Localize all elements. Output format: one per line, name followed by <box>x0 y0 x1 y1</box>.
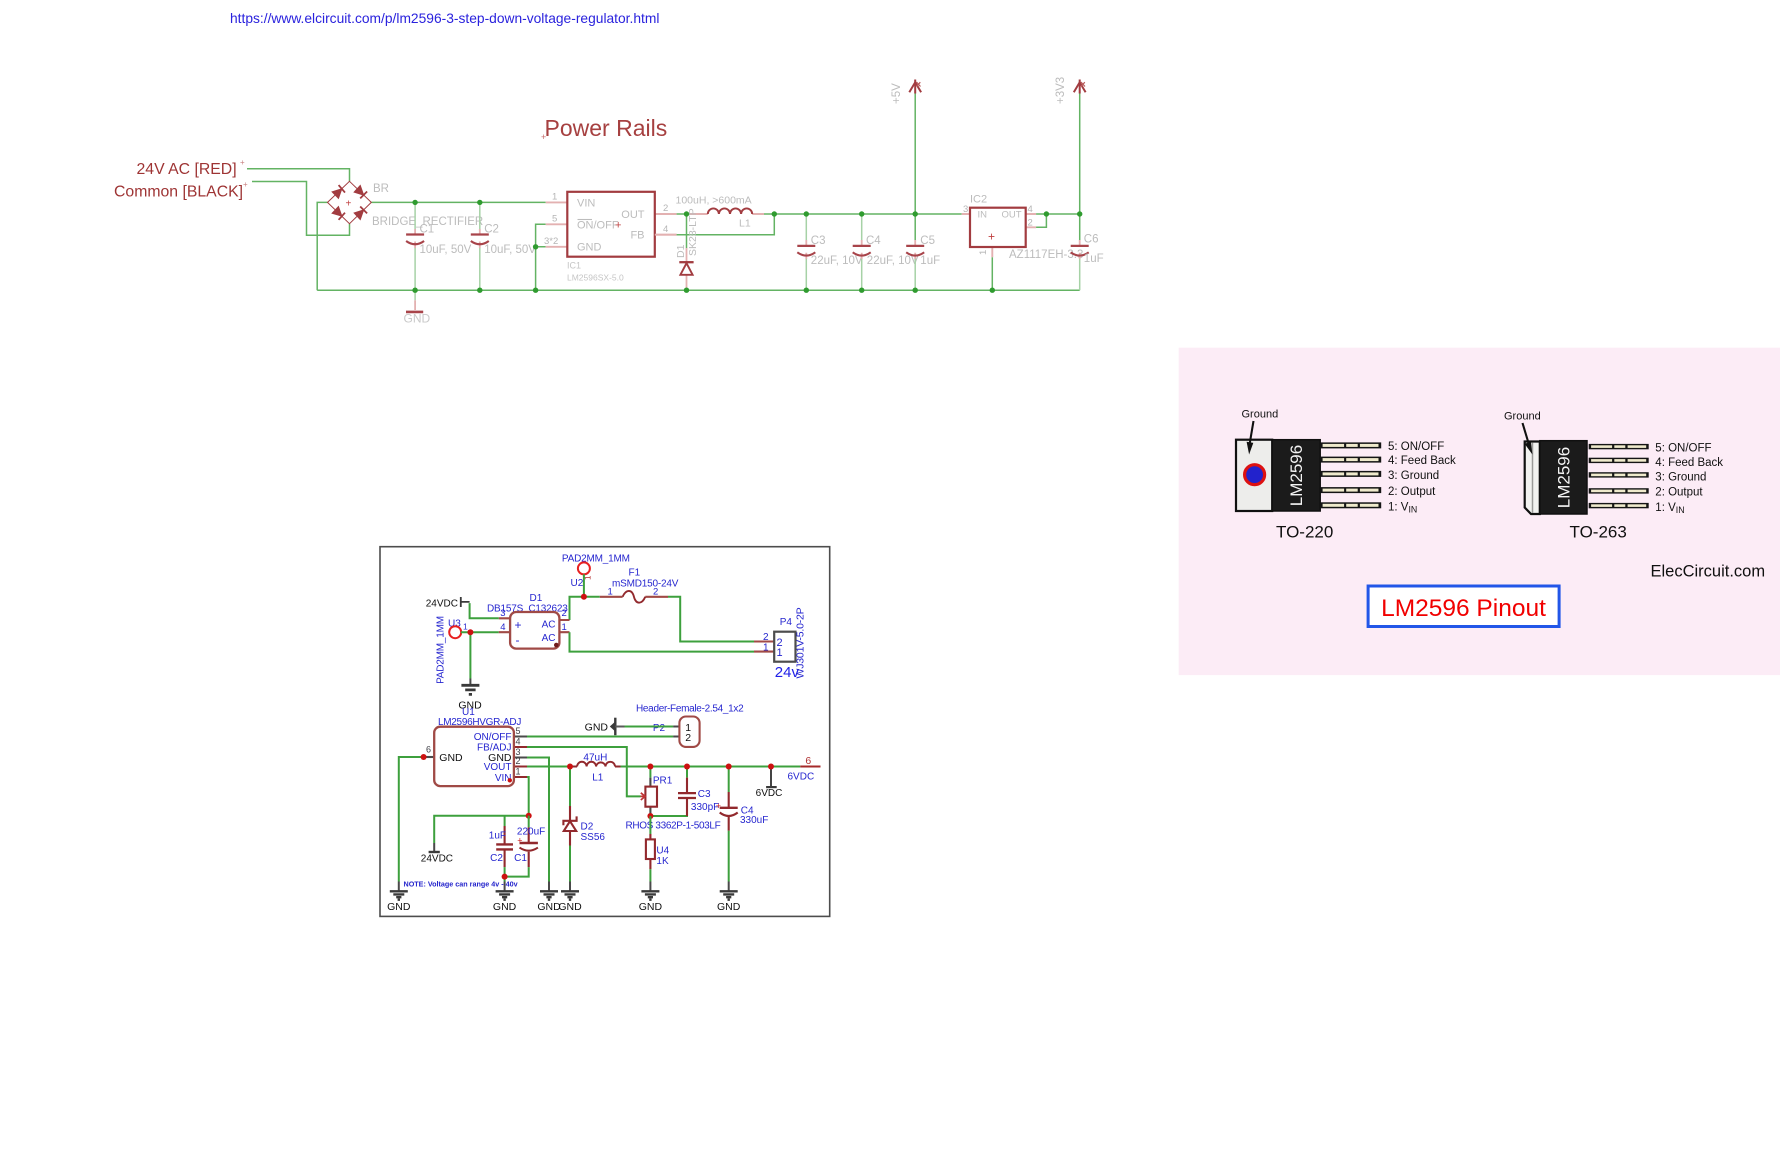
svg-text:SS56: SS56 <box>581 832 606 843</box>
svg-text:C2: C2 <box>490 853 503 864</box>
svg-text:LM2596: LM2596 <box>1287 445 1306 506</box>
connector P4 WJ301V-5.0-2P <box>754 607 807 680</box>
svg-text:D1: D1 <box>675 244 687 258</box>
svg-text:D2: D2 <box>581 821 594 832</box>
svg-text:RHOS 3362P-1-503LF: RHOS 3362P-1-503LF <box>626 820 721 831</box>
svg-text:L1: L1 <box>739 218 751 230</box>
wire PR1 node to U4 <box>649 816 651 834</box>
svg-text:5: ON/OFF: 5: ON/OFF <box>1655 443 1711 455</box>
svg-text:2: 2 <box>653 587 658 598</box>
svg-text:IC2: IC2 <box>970 194 987 206</box>
svg-text:Common [BLACK]: Common [BLACK] <box>114 184 243 201</box>
svg-text:AZ1117EH-3.3: AZ1117EH-3.3 <box>1009 249 1083 261</box>
IC2 AZ1117EH-3.3 <box>962 194 1084 261</box>
wire GND to P2 pin1 <box>625 726 674 728</box>
svg-text:GND: GND <box>558 901 582 913</box>
junction U1 pin6 <box>421 754 427 760</box>
ground symbol GND (at P2) <box>585 718 625 736</box>
capacitor C1 220uF <box>505 816 546 877</box>
svg-text:3: 3 <box>963 204 968 215</box>
title Power Rails <box>541 115 667 142</box>
wire Common to bridge <box>252 182 350 236</box>
svg-text:+: + <box>517 835 522 845</box>
svg-text:Ground: Ground <box>1504 411 1541 423</box>
svg-text:4: Feed Back: 4: Feed Back <box>1388 455 1456 467</box>
svg-text:NOTE: Voltage can range 4v - 4: NOTE: Voltage can range 4v - 40v <box>404 880 518 889</box>
pad U2 PAD2MM_1MM <box>562 553 630 589</box>
wire VOUT rail <box>527 766 570 768</box>
svg-text:2: 2 <box>685 732 691 744</box>
svg-text:1: 1 <box>978 250 989 255</box>
capacitor C4 330uF <box>716 767 769 882</box>
svg-text:D1: D1 <box>530 593 543 604</box>
bridge rectifier BR <box>328 181 484 228</box>
junction PR1 top <box>647 764 653 770</box>
svg-text:2: 2 <box>763 632 769 643</box>
wire FB to output node <box>655 214 775 235</box>
junction C4 top <box>726 764 732 770</box>
pad U3 PAD2MM_1MM <box>436 616 469 684</box>
svg-text:1K: 1K <box>656 856 669 867</box>
svg-text:OUT: OUT <box>1001 210 1021 221</box>
svg-text:GND: GND <box>577 242 602 254</box>
svg-text:GND: GND <box>493 901 517 913</box>
svg-text:2: Output: 2: Output <box>1655 487 1703 499</box>
svg-text:P4: P4 <box>780 617 793 628</box>
svg-text:4: 4 <box>1028 204 1033 215</box>
svg-text:L1: L1 <box>592 773 604 784</box>
wire VIN net <box>434 777 529 843</box>
svg-text:PAD2MM_1MM: PAD2MM_1MM <box>562 553 630 564</box>
junction +3V3/C6 <box>1077 211 1082 216</box>
svg-text:+: + <box>346 199 352 210</box>
net label 24V AC [RED] <box>137 158 246 178</box>
power flag 6VDC <box>756 767 783 800</box>
wire VOUT rail after L1 <box>621 766 801 768</box>
junction C2 bottom <box>477 288 482 293</box>
svg-text:24V AC [RED]: 24V AC [RED] <box>137 161 237 178</box>
junction node U2/F1 <box>581 594 587 600</box>
svg-text:+3V3: +3V3 <box>1055 77 1067 104</box>
ground symbol GND (U4) <box>639 882 663 913</box>
LM2596 Pinout title box <box>1368 586 1559 627</box>
svg-text:22uF, 10V: 22uF, 10V <box>867 255 919 267</box>
ground symbol GND (C1 C2) <box>493 882 517 913</box>
svg-text:2: 2 <box>663 203 668 214</box>
svg-text:+: + <box>240 158 245 167</box>
svg-text:VIN: VIN <box>577 198 595 210</box>
svg-text:C3: C3 <box>698 789 711 800</box>
svg-text:4: 4 <box>500 622 505 633</box>
wire U1 GND pin3 to GND <box>527 758 549 882</box>
capacitor C1 <box>406 202 472 290</box>
resistor U4 1K <box>646 834 670 882</box>
junction C1 bottom <box>412 288 417 293</box>
wire IC2 ground pin <box>991 257 993 290</box>
svg-text:330uF: 330uF <box>740 815 768 826</box>
capacitor C5 <box>906 214 940 290</box>
svg-text:IC1: IC1 <box>567 261 581 271</box>
svg-text:TO-220: TO-220 <box>1276 523 1333 542</box>
wire F1 to P4 pin2 <box>668 597 754 642</box>
wire ground bottom rail <box>317 289 1079 291</box>
capacitor C6 <box>1071 214 1104 290</box>
diode D2 SS56 <box>563 767 605 882</box>
junction IC1 GND rail <box>533 288 538 293</box>
svg-text:2: 2 <box>1028 217 1033 228</box>
power flag 24VDC (bottom) <box>421 843 453 864</box>
ground symbol GND (D2) <box>558 882 582 913</box>
wire bridge plus to IC1 VIN rail <box>371 201 545 203</box>
svg-text:SK28-LTP: SK28-LTP <box>687 208 699 256</box>
wire D1 AC pin1 to P4 pin1 <box>570 632 755 651</box>
svg-text:+: + <box>541 132 546 142</box>
junction IC2 out <box>1044 211 1049 216</box>
junction C5 bottom <box>913 288 918 293</box>
svg-text:https://www.elcircuit.com/p/lm: https://www.elcircuit.com/p/lm2596-3-ste… <box>230 11 659 26</box>
TO-263 pin labels <box>1655 443 1723 516</box>
svg-text:C1: C1 <box>420 224 435 236</box>
svg-text:C1: C1 <box>514 853 527 864</box>
wire U3 pad to D1 pin4 <box>461 631 499 633</box>
svg-text:+: + <box>615 220 621 232</box>
svg-text:2: Output: 2: Output <box>1388 486 1436 498</box>
wire IC1 ON/OFF and GND to ground rail <box>536 224 546 290</box>
junction C2 top <box>477 200 482 205</box>
svg-text:100uH, >600mA: 100uH, >600mA <box>676 195 752 207</box>
svg-text:Power Rails: Power Rails <box>545 115 668 141</box>
TO-263 pins <box>1589 444 1649 508</box>
svg-text:5: 5 <box>552 214 557 225</box>
wire U1 FB/ADJ to PR1 wiper <box>527 747 641 796</box>
svg-text:C3: C3 <box>811 235 826 247</box>
wire 24V AC to bridge <box>247 169 350 182</box>
svg-text:VOUT: VOUT <box>484 762 512 773</box>
svg-text:6: 6 <box>805 755 811 767</box>
svg-text:IN: IN <box>978 210 988 221</box>
wire U1 GND pin6 to GND <box>399 757 423 882</box>
LM2596 pinout panel background <box>1179 348 1780 675</box>
wire output node after L1 <box>764 213 962 215</box>
svg-text:1: 1 <box>552 192 557 203</box>
svg-text:PR1: PR1 <box>653 775 673 786</box>
svg-text:BR: BR <box>373 183 389 195</box>
svg-text:5: 5 <box>516 726 521 736</box>
power +3V3 <box>1055 77 1086 214</box>
svg-text:22uF, 10V: 22uF, 10V <box>811 255 863 267</box>
capacitor C3 330pF <box>678 767 719 817</box>
net 24VDC flag (top) <box>426 597 499 618</box>
svg-text:5: ON/OFF: 5: ON/OFF <box>1388 441 1444 453</box>
TO-220 pin labels <box>1388 441 1456 515</box>
svg-text:PAD2MM_1MM: PAD2MM_1MM <box>436 616 447 684</box>
KiCad schematic frame <box>380 547 830 917</box>
svg-text:+: + <box>716 801 721 811</box>
svg-text:C4: C4 <box>866 235 881 247</box>
net label Common [BLACK] <box>114 180 248 201</box>
svg-text:3: Ground: 3: Ground <box>1388 470 1439 482</box>
svg-text:+5V: +5V <box>891 83 903 104</box>
TO-263 package <box>1525 441 1587 514</box>
wire U2 pad to node <box>583 574 585 597</box>
capacitor C2 <box>471 202 537 290</box>
svg-text:AC: AC <box>542 619 556 630</box>
svg-text:2: 2 <box>516 756 521 766</box>
svg-text:FB: FB <box>630 229 644 241</box>
junction C3 top <box>684 764 690 770</box>
svg-text:1: 1 <box>777 647 783 659</box>
svg-text:1uF: 1uF <box>489 830 506 841</box>
inductor L1 47uH <box>570 753 621 784</box>
svg-text:LM2596: LM2596 <box>1554 447 1573 508</box>
svg-text:3: Ground: 3: Ground <box>1655 471 1706 483</box>
wire U1 ON/OFF to P2 pin2 <box>527 736 673 738</box>
svg-text:F1: F1 <box>629 568 641 579</box>
capacitor C3 <box>797 214 863 290</box>
net 6 labels <box>788 755 815 783</box>
junction C4 bottom <box>859 288 864 293</box>
svg-text:GND: GND <box>439 752 463 764</box>
svg-text:TO-263: TO-263 <box>1570 523 1627 542</box>
regulator U1 LM2596HVGR-ADJ <box>423 707 527 786</box>
capacitor C2 1uF <box>489 816 513 882</box>
svg-text:6VDC: 6VDC <box>788 772 815 783</box>
svg-text:2: 2 <box>562 608 567 619</box>
wire node to D1 AC pin2 <box>570 597 584 620</box>
svg-text:AC: AC <box>542 633 556 644</box>
power +5V <box>891 80 921 215</box>
junction C4 top <box>859 211 864 216</box>
junction IC2 gnd <box>990 288 995 293</box>
svg-text:Ground: Ground <box>1242 409 1279 421</box>
inductor L1 <box>676 195 765 230</box>
svg-text:GND: GND <box>639 901 663 913</box>
junction C1/C2 bottom <box>502 874 508 880</box>
svg-text:ON/OFF: ON/OFF <box>577 220 619 232</box>
header P2 Header-Female-2.54_1x2 <box>636 703 744 747</box>
svg-text:6: 6 <box>426 745 431 755</box>
fuse F1 mSMD150-24V <box>600 568 679 603</box>
ground symbol GND (left) <box>387 882 411 913</box>
svg-text:1: 1 <box>562 622 567 633</box>
svg-text:10uF, 50V: 10uF, 50V <box>420 244 472 256</box>
ground symbol GND (C4) <box>717 882 741 913</box>
svg-text:C6: C6 <box>1084 233 1099 245</box>
svg-text:1: 1 <box>608 587 613 598</box>
svg-text:1uF: 1uF <box>920 255 940 267</box>
junction VIN/C1 <box>526 813 532 819</box>
svg-text:ON/OFF: ON/OFF <box>474 732 512 743</box>
svg-text:4: 4 <box>663 224 668 235</box>
svg-text:Header-Female-2.54_1x2: Header-Female-2.54_1x2 <box>636 703 744 714</box>
ground symbol GND (under U3) <box>458 685 482 711</box>
svg-text:LM2596SX-5.0: LM2596SX-5.0 <box>567 273 624 283</box>
svg-text:+: + <box>515 618 522 632</box>
svg-text:3*2: 3*2 <box>544 236 558 247</box>
wire node to F1 <box>584 596 600 598</box>
TO-220 package <box>1236 440 1320 511</box>
wire U3 node to GND <box>469 632 471 678</box>
junction D1 rail <box>684 288 689 293</box>
svg-text:GND: GND <box>404 312 431 326</box>
TO-220 Ground pointer <box>1242 409 1279 455</box>
TO-263 Ground pointer <box>1504 411 1541 455</box>
svg-text:+: + <box>988 230 995 244</box>
svg-text:OUT: OUT <box>621 209 645 221</box>
svg-text:3: 3 <box>500 608 505 619</box>
svg-text:C5: C5 <box>920 235 935 247</box>
junction IC1 GND <box>533 244 538 249</box>
svg-text:1: 1 <box>516 767 521 777</box>
svg-text:1: 1 <box>463 622 468 632</box>
junction C3 bottom <box>804 288 809 293</box>
junction FB node <box>772 211 777 216</box>
junction U3 node <box>467 629 473 635</box>
wire net 6 stub <box>800 766 820 768</box>
ground symbol GND (top schematic) <box>404 290 431 325</box>
svg-text:LM2596 Pinout: LM2596 Pinout <box>1381 595 1546 622</box>
junction VOUT/D2 <box>567 764 573 770</box>
TO-220 pins <box>1320 442 1381 508</box>
potentiometer PR1 <box>626 767 721 832</box>
svg-text:WJ301V-5.0-2P: WJ301V-5.0-2P <box>795 607 807 678</box>
capacitor C4 <box>853 214 919 290</box>
diode D1 SK28-LTP <box>675 208 699 290</box>
svg-text:GND: GND <box>585 721 609 733</box>
svg-text:GND: GND <box>717 901 741 913</box>
svg-text:GND: GND <box>387 901 411 913</box>
wire IC1 OUT node <box>677 213 690 215</box>
wire IC2 out pins to +3V3 <box>1036 214 1080 227</box>
svg-text:4: Feed Back: 4: Feed Back <box>1655 457 1723 469</box>
svg-text:mSMD150-24V: mSMD150-24V <box>612 578 679 589</box>
junction C3 top <box>804 211 809 216</box>
junction PR1 bottom <box>647 813 653 819</box>
svg-text:4: 4 <box>516 736 521 746</box>
svg-text:-: - <box>516 633 520 647</box>
svg-text:U4: U4 <box>656 846 669 857</box>
junction OUT/D1 <box>684 211 689 216</box>
svg-text:24VDC: 24VDC <box>421 853 453 864</box>
svg-text:ElecCircuit.com: ElecCircuit.com <box>1651 563 1766 581</box>
svg-text:10uF, 50V: 10uF, 50V <box>484 244 536 256</box>
ground symbol GND (pin3) <box>537 882 561 913</box>
IC1 LM2596SX-5.0 <box>544 192 677 283</box>
svg-text:+: + <box>243 180 248 189</box>
wire bridge minus to ground rail <box>317 202 327 290</box>
svg-text:P2: P2 <box>653 723 666 734</box>
svg-text:1uF: 1uF <box>1084 253 1104 265</box>
junction +5V/C5 <box>913 211 918 216</box>
svg-text:24VDC: 24VDC <box>426 598 458 609</box>
junction C1 top <box>412 200 417 205</box>
svg-text:C2: C2 <box>484 224 499 236</box>
bridge D1 DB157S_C132623 <box>487 593 570 649</box>
wire PR1 bottom to C3 bottom <box>650 798 687 816</box>
junction 6VDC <box>768 764 774 770</box>
svg-text:6VDC: 6VDC <box>756 788 783 799</box>
svg-text:1: 1 <box>763 643 769 654</box>
svg-text:U2: U2 <box>571 578 584 589</box>
